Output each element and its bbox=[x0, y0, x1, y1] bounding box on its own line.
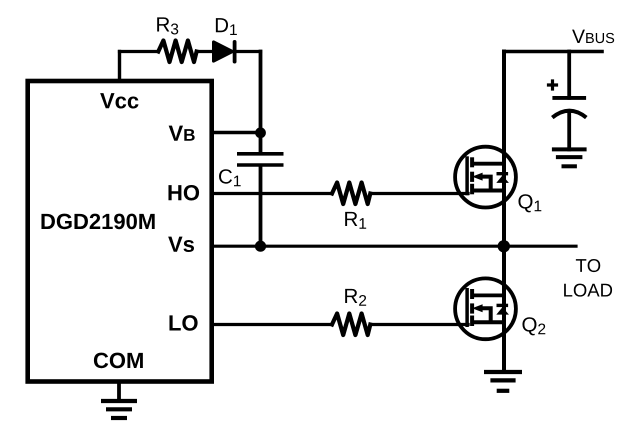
node Vs C1 junction bbox=[255, 241, 266, 252]
ground COM bbox=[101, 401, 137, 418]
label R2 bbox=[345, 289, 366, 306]
ground bus capacitor bbox=[552, 149, 587, 166]
label D1 bbox=[216, 18, 237, 35]
body to source link bbox=[482, 177, 491, 191]
wire C1 bottom plate to Vs node bbox=[259, 167, 263, 246]
gate bar bbox=[465, 156, 469, 195]
label + polarity of bus capacitor bbox=[547, 79, 558, 90]
pin label Vcc bbox=[100, 93, 138, 108]
pin label VB bbox=[169, 126, 195, 141]
transistor body circle bbox=[455, 147, 516, 208]
wire half-bridge vertical VBUS to Q2 source ground bbox=[502, 52, 506, 371]
body to source link bbox=[482, 308, 491, 322]
channel segment source side bbox=[470, 316, 474, 327]
node VB junction bbox=[255, 127, 266, 138]
label R3 bbox=[157, 17, 178, 34]
ground below Q2 source bbox=[484, 372, 522, 391]
pin label Vs bbox=[168, 237, 194, 252]
diode D1 anode triangle bbox=[214, 42, 233, 61]
wire LO pin lead bbox=[213, 323, 332, 326]
channel segment body bbox=[470, 172, 474, 182]
body diode triangle bbox=[496, 307, 509, 315]
channel segment body bbox=[470, 303, 474, 313]
wire corner down to VB node bbox=[259, 52, 263, 135]
label TO LOAD bbox=[576, 259, 600, 272]
body diode cathode bar bbox=[497, 172, 509, 175]
label DGD2190M bbox=[41, 214, 154, 230]
label Q1 bbox=[518, 194, 541, 212]
wire D1 to corner bbox=[235, 50, 261, 53]
pin label LO bbox=[169, 315, 197, 331]
wire R1 to Q1 gate bbox=[370, 192, 468, 195]
channel segment source side bbox=[470, 184, 474, 195]
IC U1 DGD2190M gate driver body bbox=[28, 81, 212, 382]
resistor R1 bbox=[332, 183, 370, 205]
source lead bbox=[472, 189, 504, 193]
wire VB node to C1 top plate bbox=[259, 133, 263, 152]
wire COM pin to ground bbox=[117, 382, 121, 402]
body diode cathode bar bbox=[497, 304, 509, 307]
source lead bbox=[472, 320, 504, 324]
wire Vs pin to load bbox=[213, 245, 576, 248]
wire R2 to Q2 gate bbox=[370, 323, 468, 326]
power rail VBUS bbox=[504, 50, 602, 54]
transistor Q2 low-side MOSFET bbox=[455, 278, 516, 339]
channel segment drain side bbox=[470, 157, 474, 167]
capacitor C1 bottom plate bbox=[237, 163, 284, 167]
transistor Q1 high-side MOSFET bbox=[455, 147, 516, 208]
wire VBUS rail down to bus capacitor bbox=[567, 52, 571, 98]
wire R3 to D1 bbox=[197, 50, 213, 53]
body arrow bbox=[472, 304, 483, 312]
capacitor bus electrolytic positive plate bbox=[552, 96, 586, 100]
capacitor bus electrolytic curved plate bbox=[552, 111, 586, 118]
label VBUS bbox=[572, 30, 614, 44]
transistor body circle bbox=[455, 278, 516, 339]
resistor R3 bbox=[158, 41, 196, 63]
wire HO pin lead bbox=[213, 192, 332, 195]
body diode triangle bbox=[496, 175, 509, 183]
body arrow bbox=[472, 173, 483, 181]
channel segment drain side bbox=[470, 289, 474, 299]
gate bar bbox=[465, 288, 469, 327]
node Vs switch-node junction bbox=[498, 240, 510, 252]
wire Vcc pin stub bbox=[118, 52, 121, 82]
pin label HO bbox=[168, 185, 199, 201]
diode D1 cathode bar bbox=[233, 42, 237, 62]
resistor R2 bbox=[332, 314, 370, 336]
drain lead bbox=[472, 162, 504, 166]
wire VB pin bbox=[213, 131, 261, 134]
capacitor C1 top plate bbox=[237, 152, 284, 156]
drain lead bbox=[472, 293, 504, 297]
pin label COM bbox=[94, 353, 143, 369]
label C1 bbox=[219, 169, 241, 186]
wire bus capacitor to ground bbox=[567, 114, 571, 150]
label Q2 bbox=[522, 317, 545, 335]
label R1 bbox=[345, 212, 366, 229]
wire top lead Vcc to R3 bbox=[120, 50, 159, 53]
